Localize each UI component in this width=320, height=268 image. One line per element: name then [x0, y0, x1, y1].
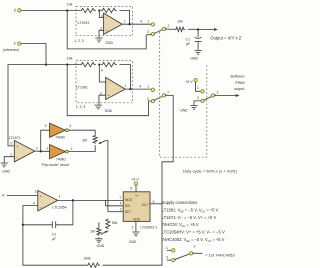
label LTC2054 U5 [52, 205, 66, 209]
svg-text:Duty cycle = 50% x (1 + X/|Y|): Duty cycle = 50% x (1 + X/|Y|) [183, 169, 237, 174]
svg-text:+: + [40, 195, 42, 199]
junction Z node [66, 9, 68, 11]
svg-text:1M: 1M [82, 139, 87, 143]
op-amp U1 LT1991 [104, 13, 123, 34]
svg-text:10k: 10k [177, 20, 183, 24]
switch A blade [154, 28, 166, 34]
svg-text:LTC6992-1: LTC6992-1 [140, 226, 157, 230]
label 10k R1 [67, 3, 73, 7]
ground U3 pin 2 [1, 163, 8, 167]
wire U2 pin 3 to ground [99, 95, 106, 105]
svg-text:1M: 1M [90, 230, 95, 234]
pin 4 label U2 [101, 68, 103, 72]
ground U1 pin 3 [95, 38, 102, 42]
wire R7 to PWM out [103, 204, 162, 265]
inverter U4A 7404 [50, 123, 69, 137]
label GND U6 [129, 240, 137, 244]
svg-text:Buffered: Buffered [231, 75, 245, 79]
label pins 1,2,3 U2 [76, 105, 86, 109]
IC U6 LTC6992-1 [123, 192, 150, 222]
pin 1 label U1 output [124, 19, 126, 23]
ground U2 pin 3 [95, 105, 102, 109]
wire R5 to feedback [119, 65, 130, 90]
svg-text:1, 2, 3: 1, 2, 3 [74, 39, 84, 43]
svg-text:DIV: DIV [125, 204, 131, 208]
junction U2 feedback node [129, 88, 131, 90]
svg-text:3: 3 [147, 30, 149, 34]
wire OUT pin [150, 203, 162, 205]
svg-text:1: 1 [166, 246, 168, 250]
junction R1-R2 node [98, 9, 100, 11]
wire U6 GND pin [135, 221, 137, 232]
pin 1 label U5 output [59, 195, 61, 199]
svg-text:1: 1 [124, 84, 126, 88]
switch A contact 3 [151, 32, 154, 35]
label LT1991 U1 [78, 21, 90, 25]
pot R9 1M stub [98, 222, 100, 227]
legend contact 1 stub [167, 249, 172, 251]
pin 3 label U2 [100, 91, 102, 95]
wire to U1 inverting input pin 4 [99, 11, 103, 18]
svg-text:4: 4 [101, 68, 103, 72]
wire wiper B to LTC6992 OUT [162, 95, 173, 203]
svg-text:3: 3 [166, 256, 168, 260]
comparator U3 LT1671 [14, 140, 35, 162]
svg-text:3: 3 [197, 96, 199, 100]
svg-text:−: − [40, 205, 42, 209]
svg-text:Supply connections: Supply connections [162, 200, 198, 205]
potentiometer R9 1M [97, 227, 101, 235]
junction U5 output node [72, 199, 74, 201]
label pin 3 contact C [197, 96, 199, 100]
label duty cycle formula [183, 169, 237, 174]
op-amp U2 LT1991 [106, 77, 126, 99]
label +5V switch C [185, 80, 193, 84]
junction Y at U2 input [66, 63, 68, 65]
svg-text:0.1: 0.1 [52, 232, 57, 236]
label pin 1 contact B [147, 85, 149, 89]
svg-text:LTC2054HV: V+ = +5 V, V− = −5: LTC2054HV: V+ = +5 V, V− = −5 V [162, 230, 225, 235]
wire Z to LT1991 U1 block [21, 10, 80, 12]
svg-text:1: 1 [197, 86, 199, 90]
svg-text:LTC2054: LTC2054 [52, 205, 66, 209]
wire U3 output [35, 150, 51, 152]
wire R6 wiper to SET [105, 141, 108, 212]
svg-text:GND: GND [180, 108, 188, 112]
label GND C1 [190, 56, 198, 60]
wire R8 to pot wiper [107, 231, 109, 232]
svg-text:1: 1 [119, 196, 121, 200]
pin 1 label U6 [119, 196, 121, 200]
svg-text:2: 2 [132, 225, 134, 229]
svg-text:LT1991: LT1991 [76, 85, 88, 89]
svg-text:−: − [16, 156, 18, 160]
label GND U1 [105, 41, 113, 45]
svg-text:GND: GND [133, 217, 141, 221]
label pin 2 wiper A [168, 24, 170, 28]
svg-text:Output = X/Y x Z: Output = X/Y x Z [210, 35, 241, 40]
wire Y to junction [21, 44, 46, 65]
label 10k R4 [67, 57, 73, 61]
label pin 3 contact B [147, 97, 149, 101]
svg-text:2: 2 [168, 24, 170, 28]
switch A wiper pin 2 [162, 27, 165, 30]
label pin 1 contact A [147, 20, 149, 24]
svg-text:GND: GND [105, 109, 113, 113]
switch A contact 1 [151, 23, 154, 26]
wire U1 pin 3 to ground [99, 30, 104, 38]
wire SET pin [108, 211, 123, 213]
label Buffered PWM output [231, 75, 245, 91]
resistor R3 10k [175, 27, 186, 31]
svg-text:GND: GND [97, 244, 105, 248]
legend pin 1 label [166, 246, 168, 250]
pin 2 label U3 [10, 152, 12, 156]
label GND U3 [2, 169, 10, 173]
svg-text:+: + [106, 29, 108, 33]
svg-text:7404D: 7404D [56, 158, 66, 162]
pin 1 label U2 output [124, 84, 126, 88]
wire contact 3 C to ground [194, 101, 201, 105]
node +5V terminal C [194, 79, 197, 82]
svg-text:3: 3 [100, 26, 102, 30]
svg-text:100k: 100k [83, 256, 91, 260]
svg-text:= 1/3 74HC4053: = 1/3 74HC4053 [205, 252, 235, 257]
label C2 0.1 uF [52, 232, 57, 240]
pin 6 label U6 [153, 200, 155, 204]
svg-text:50k: 50k [112, 221, 118, 225]
node X input [2, 193, 5, 198]
wire +5V to U6 V+ [135, 185, 137, 192]
resistor R4 10k [80, 62, 96, 66]
resistor R1 10k [80, 8, 96, 12]
wire R3 to output node [188, 28, 198, 30]
switch C blade [204, 95, 215, 101]
label pin 1 contact C [197, 86, 199, 90]
pin 4 label U1 [101, 14, 103, 18]
svg-text:1, 2, 3: 1, 2, 3 [76, 105, 86, 109]
label pin 4 wire A [140, 20, 142, 24]
resistor R2 10k [101, 8, 117, 12]
wire U5 output to MOD [58, 199, 123, 201]
wire X to U5 pin 3 [7, 194, 38, 196]
supply connections note [162, 200, 225, 242]
svg-text:3: 3 [120, 208, 122, 212]
svg-text:PWM: PWM [235, 81, 244, 85]
wire Y to LT1671 pin 3 [8, 65, 46, 146]
label pin 2 wiper C [217, 91, 219, 95]
svg-text:V+: V+ [135, 194, 139, 198]
svg-text:3: 3 [147, 97, 149, 101]
label LTC6992-1 [140, 226, 157, 230]
junction R4-R5 node [98, 63, 100, 65]
switch B blade [154, 95, 166, 101]
ground U6 [132, 232, 139, 236]
wire +5V to contact 1 C [196, 82, 201, 92]
op-amp U5 LTC2054 [38, 190, 58, 211]
label 50k R8 [112, 221, 118, 225]
label pin 4 wire B [139, 85, 141, 89]
svg-text:4: 4 [69, 124, 71, 128]
label pin 4 U4A [69, 124, 71, 128]
pin 4 label U6 [120, 202, 122, 206]
wire U4B output to 1M bottom [68, 145, 95, 151]
node Z input terminal [14, 8, 21, 13]
LT1991 U2 dashed box [76, 61, 133, 103]
wire Y to LT1991 U2 block [46, 64, 80, 66]
legend switch wiper [189, 252, 192, 255]
74HC4053 dashed box outline [160, 32, 207, 157]
svg-text:GND: GND [129, 240, 137, 244]
label pin 1 U4B in [46, 147, 48, 151]
pin 3 label U6 [120, 208, 122, 212]
svg-text:4: 4 [33, 201, 35, 205]
junction U5 feedback node [22, 224, 24, 226]
svg-text:X: X [2, 193, 5, 198]
svg-text:6: 6 [153, 200, 155, 204]
junction output node [197, 28, 199, 30]
svg-text:LT1991: LT1991 [78, 21, 90, 25]
svg-text:MOD: MOD [125, 198, 133, 202]
svg-text:LT1671: V− = −5 V, V+ = +5 V: LT1671: V− = −5 V, V+ = +5 V [162, 215, 217, 220]
junction U1 feedback node [128, 23, 130, 25]
pin 3 label U3 [10, 142, 12, 146]
label pins 1,2,3 U1 [74, 39, 84, 43]
pin 3 label U1 [100, 26, 102, 30]
wire U2 output [125, 88, 151, 90]
wire buffered PWM output arrow [214, 94, 239, 97]
svg-text:1: 1 [124, 19, 126, 23]
pot R9 wiper arrow [101, 231, 107, 235]
label pin 2 U4B out [71, 147, 73, 151]
LT1991 U1 dashed box [76, 6, 133, 35]
label 100k R7 [83, 256, 91, 260]
label flip-mode circuit [41, 163, 69, 167]
wire U3 pin 2 to ground [4, 157, 14, 163]
svg-text:1: 1 [147, 85, 149, 89]
inverter U4B 7404 [50, 145, 69, 159]
svg-text:3: 3 [100, 91, 102, 95]
svg-text:3: 3 [10, 142, 12, 146]
pin 4 label U5 [33, 201, 35, 205]
svg-text:+: + [16, 145, 18, 149]
wire C2 to output node [56, 200, 73, 224]
switch C contact 1 [201, 90, 204, 93]
svg-text:10k: 10k [67, 3, 73, 7]
switch C contact 3 [201, 99, 204, 102]
svg-text:10k: 10k [67, 57, 73, 61]
legend switch contact 1 [172, 249, 175, 252]
svg-text:Y: Y [14, 41, 17, 46]
label GND switch C [180, 108, 188, 112]
wire feedback to 100k rail [23, 225, 87, 265]
svg-text:−: − [106, 16, 108, 20]
svg-text:µF: µF [52, 237, 56, 241]
switch B contact 3 [151, 99, 154, 102]
legend contact 3 stub [167, 259, 172, 261]
svg-text:1: 1 [59, 195, 61, 199]
pin 3 label U5 [35, 190, 37, 194]
wire U5 pin 4 feedback [23, 206, 38, 225]
label GND U2 [105, 109, 113, 113]
svg-text:−: − [108, 81, 110, 85]
label C1 0.1 uF [186, 37, 191, 45]
svg-text:3: 3 [35, 190, 37, 194]
svg-text:+5 V: +5 V [185, 80, 193, 84]
svg-text:74HC4053: VEE = −5 V, VCC = +5: 74HC4053: VEE = −5 V, VCC = +5 V [162, 237, 225, 243]
node Y input terminal [3, 41, 21, 52]
wire U4A output to 1M top [68, 130, 95, 135]
label legend 1/3 74HC4053 [205, 252, 235, 257]
legend pin 2 label [194, 244, 196, 248]
svg-text:1: 1 [147, 20, 149, 24]
label LT1671 U3 [9, 136, 21, 140]
svg-text:2: 2 [10, 152, 12, 156]
svg-text:GND: GND [105, 41, 113, 45]
capacitor C1 0.1uF [195, 30, 202, 51]
label 1M R6 [82, 139, 87, 143]
svg-text:SET: SET [125, 210, 131, 214]
wire feedback node to C2 [23, 224, 52, 226]
resistor R6 1M flip-mode [93, 135, 97, 144]
wire U1 output [122, 23, 151, 25]
svg-text:2: 2 [36, 147, 38, 151]
wire wiper A to R3 [165, 28, 174, 30]
svg-text:“Flip-mode” circuit: “Flip-mode” circuit [41, 163, 69, 167]
svg-text:(reference): (reference) [3, 48, 19, 52]
svg-text:output: output [234, 87, 244, 91]
svg-text:7404D: 7404D [55, 136, 65, 140]
wire R9 to ground [98, 237, 100, 239]
svg-text:74HC04: VCC = +5 V: 74HC04: VCC = +5 V [162, 222, 199, 228]
legend switch blade [175, 253, 194, 260]
ground C1 [194, 50, 201, 54]
svg-text:3: 3 [45, 124, 47, 128]
label 7404D U4A [55, 136, 65, 140]
svg-text:5: 5 [130, 187, 132, 191]
pin 2 label U6 gnd [132, 225, 134, 229]
R6 wiper arrow [99, 141, 106, 144]
wire R2 to feedback [119, 11, 129, 25]
label pin 2 wiper B [167, 91, 169, 95]
switch B contact 1 [151, 88, 154, 91]
svg-text:1: 1 [46, 147, 48, 151]
svg-text:4: 4 [120, 202, 122, 206]
switch B wiper pin 2 [162, 94, 165, 97]
wire output arrow [198, 28, 218, 31]
legend wiper stub [193, 252, 203, 254]
label GND R9 [97, 244, 105, 248]
label Output = X/Y x Z [210, 35, 241, 40]
svg-text:GND: GND [190, 56, 198, 60]
ground R9 [95, 239, 102, 243]
label 10k R3 [177, 20, 183, 24]
capacitor C2 0.1uF [52, 221, 55, 228]
resistor R7 100k [86, 263, 100, 267]
svg-text:LT1991: VEE = −5 V, VCC = +5 V: LT1991: VEE = −5 V, VCC = +5 V [162, 208, 219, 214]
svg-text:2: 2 [167, 91, 169, 95]
junction U3 output branch [40, 150, 42, 152]
node +5V terminal U6 [134, 182, 137, 185]
label +5V LTC6992 [131, 177, 139, 181]
label 7404D U4B [56, 158, 66, 162]
legend pin 3 label [166, 256, 168, 260]
svg-text:OUT: OUT [142, 203, 149, 207]
wire Y to switch B contact 3 [67, 65, 151, 116]
svg-text:+5 V: +5 V [131, 177, 139, 181]
switch C wiper pin 2 [211, 94, 214, 97]
wire Z to switch A contact 3 [67, 11, 151, 49]
resistor R8 50k [106, 219, 110, 230]
pin 5 label U6 [130, 187, 132, 191]
label LT1991 U2 [76, 85, 88, 89]
svg-text:LT1671: LT1671 [9, 136, 21, 140]
wire branch to inverter U4A input [41, 130, 51, 151]
legend switch contact 3 [172, 258, 175, 261]
resistor R5 10k [101, 62, 117, 66]
wire to U2 inverting input pin 4 [99, 65, 105, 82]
svg-text:2: 2 [71, 147, 73, 151]
svg-text:4: 4 [140, 20, 142, 24]
svg-text:2: 2 [217, 91, 219, 95]
svg-text:4: 4 [139, 85, 141, 89]
label pin 2 U3 out [36, 147, 38, 151]
label 1M R9 [90, 230, 95, 234]
svg-text:+: + [108, 94, 110, 98]
svg-text:0.1: 0.1 [186, 37, 191, 41]
label pin 3 contact A [147, 30, 149, 34]
ground switch C [190, 105, 197, 109]
label pin 3 U4A [45, 124, 47, 128]
svg-text:GND: GND [2, 169, 10, 173]
svg-text:2: 2 [194, 244, 196, 248]
junction Y node [45, 63, 47, 65]
svg-text:µF: µF [186, 42, 190, 46]
wire DIV to MOD [106, 200, 124, 205]
